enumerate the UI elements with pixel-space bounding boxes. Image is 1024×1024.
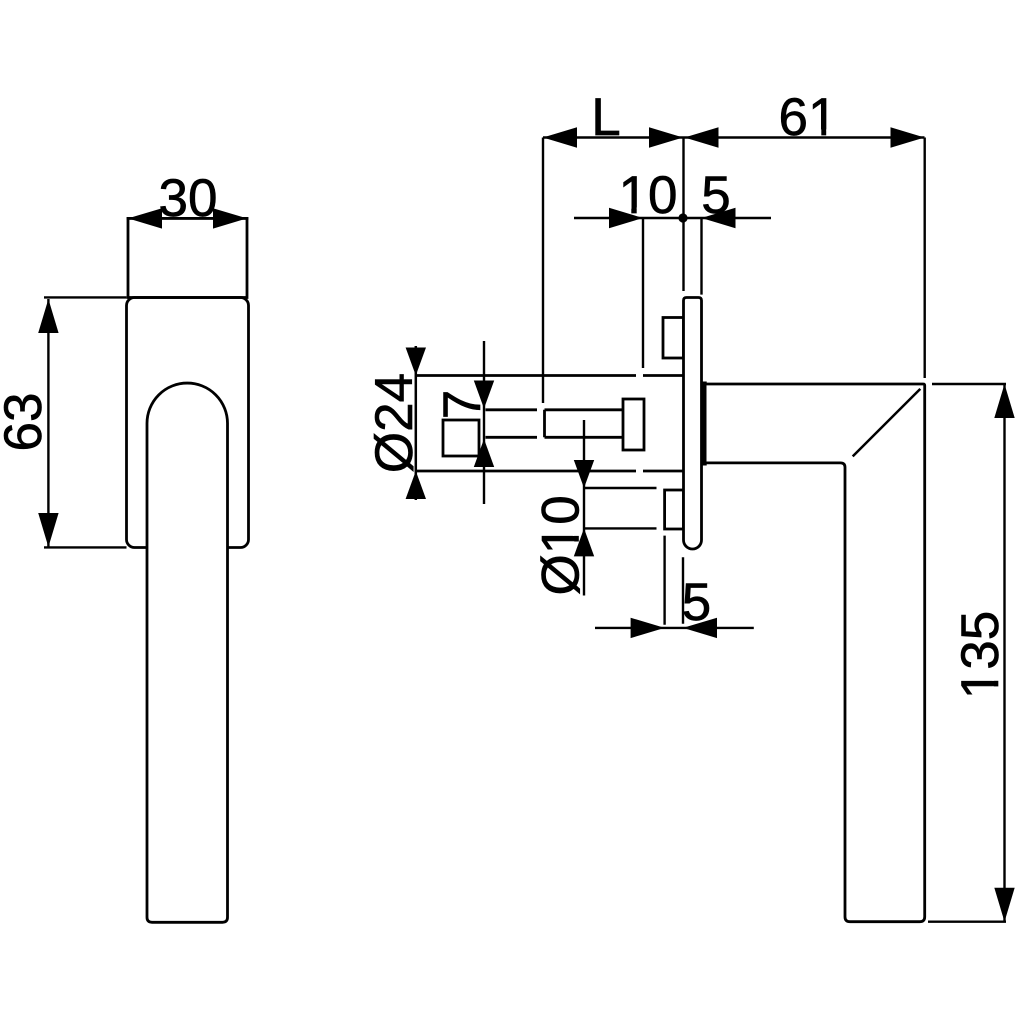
dimension 5 (clip offset) right arrow	[683, 618, 717, 638]
extension line plate front	[682, 138, 684, 292]
svg-text:L: L	[591, 88, 620, 147]
dimension 10-5 shared dot	[678, 213, 687, 222]
dimension 30 line (along boss top edge)	[127, 217, 249, 219]
dimension 63 bottom arrow	[38, 513, 58, 547]
dimension 135 bottom arrow	[994, 888, 1014, 922]
spindle bush block	[623, 399, 644, 450]
extension line plate back	[700, 218, 702, 295]
dimension 135 line	[1003, 384, 1005, 922]
dimension D10 line	[583, 420, 585, 596]
dimension D10 bottom arrow	[574, 528, 594, 556]
dimension 10 arrow	[609, 208, 643, 228]
dimension 63 top arrow	[38, 299, 58, 333]
upper mounting clip	[663, 318, 684, 359]
svg-text:63: 63	[0, 393, 53, 452]
dimension 135 extension bottom	[928, 921, 1006, 923]
dimension 63 extension line bottom	[44, 546, 127, 548]
dimension 5 (clip offset) left arrow	[631, 618, 665, 638]
dimension 61 left arrow	[685, 127, 719, 147]
handle boss (top rectangle, front view)	[128, 218, 247, 297]
dimension 63 extension line top	[44, 296, 127, 298]
dimension D10 extension top	[584, 487, 657, 489]
dimension D10 top arrow	[574, 460, 594, 488]
square spindle (7mm, side view, broken)	[486, 408, 538, 411]
dimension L left arrow	[543, 127, 577, 147]
dimension 30 right arrow	[213, 208, 247, 228]
dimension 10-5 line	[574, 217, 771, 219]
square symbol of label	[443, 420, 479, 456]
dimension 63 line	[47, 299, 49, 547]
dimension D24 top arrow	[406, 348, 426, 376]
svg-text:5: 5	[682, 573, 711, 632]
escutcheon plate (side view)	[684, 298, 702, 550]
extension line grip outer face	[924, 138, 926, 379]
dimension 135 top arrow	[994, 384, 1014, 418]
svg-text:61: 61	[779, 88, 838, 147]
dimension 5 arrow	[702, 208, 736, 228]
handle neck junction (solid)	[702, 382, 707, 466]
svg-text:30: 30	[159, 169, 218, 228]
neck cylinder (D24) with gap for extension line	[416, 374, 636, 377]
dimension 61 right arrow	[891, 127, 925, 147]
dimension 5 (clip offset) line	[595, 627, 754, 629]
svg-text:135: 135	[951, 611, 1010, 699]
svg-text:7: 7	[433, 390, 492, 419]
grip bend diagonal	[853, 389, 921, 457]
escutcheon plate (rounded rectangle, front view)	[127, 298, 249, 548]
dimension 5 (clip offset) extension right	[682, 557, 684, 624]
dimension D24 bottom arrow	[406, 471, 426, 499]
dimension square-7 line	[483, 341, 485, 504]
svg-text:Ø24: Ø24	[365, 373, 424, 473]
spindle collar	[545, 410, 624, 438]
dimension 5 (clip offset) extension left	[663, 536, 665, 625]
dimension D10 extension bottom	[584, 527, 657, 529]
dimension 135 extension top	[932, 383, 1006, 385]
lower mounting clip	[665, 490, 684, 529]
dimension L-61 line	[543, 136, 925, 138]
dimension 7 top arrow	[474, 381, 494, 409]
dimension 7 bottom arrow	[474, 439, 494, 467]
handle arm and grip (side view)	[707, 384, 925, 922]
extension line bush face	[642, 218, 644, 368]
dimension L right arrow	[649, 127, 683, 147]
dimension D24 line (also neck end face)	[415, 346, 418, 500]
extension line spindle end	[542, 138, 544, 404]
dimension 30 left arrow	[128, 208, 162, 228]
handle grip (U-shaped lever, front view)	[147, 383, 228, 922]
